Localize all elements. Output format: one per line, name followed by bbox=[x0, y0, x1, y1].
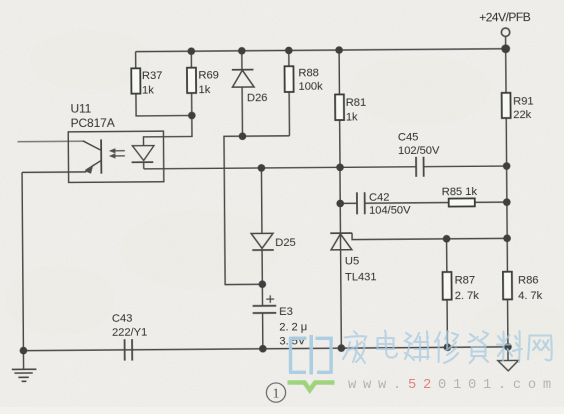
svg-text:0101.com: 0101.com bbox=[438, 378, 558, 393]
svg-text:52: 52 bbox=[408, 378, 438, 393]
svg-text:www.: www. bbox=[348, 378, 408, 393]
